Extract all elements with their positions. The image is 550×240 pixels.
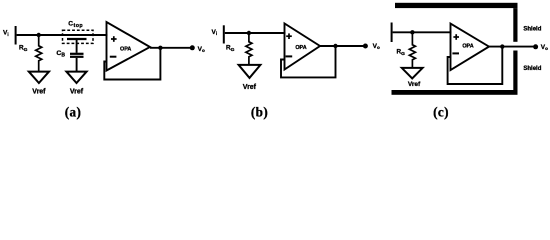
- svg-text:(b): (b): [251, 105, 268, 120]
- minus input symbol (c): [452, 52, 459, 54]
- capacitor CB (a): [70, 54, 84, 72]
- svg-text:Shield: Shield: [523, 27, 541, 33]
- shield right wall upper: [513, 8, 517, 42]
- svg-text:(a): (a): [65, 105, 82, 120]
- node junction RG (c): [410, 30, 414, 34]
- capacitor Ctop plate (a): [67, 38, 87, 40]
- wire: feedback loop (b): [281, 46, 336, 77]
- terminal Vo (a): [190, 45, 195, 50]
- plus input symbol (c): [453, 34, 459, 40]
- input terminal bar (b): [223, 25, 225, 43]
- op-amp U2 (b): [285, 24, 321, 70]
- wire: output (b): [320, 45, 365, 47]
- terminal Vo (c): [533, 44, 538, 49]
- wire: output through shield gap (c): [489, 46, 536, 48]
- svg-text:Vref: Vref: [32, 89, 46, 96]
- node junction RG (a): [37, 33, 41, 37]
- op-amp U3 (c): [451, 24, 490, 71]
- minus input symbol (a): [110, 56, 117, 58]
- svg-text:Shield: Shield: [523, 66, 541, 72]
- node junction RG (b): [247, 31, 251, 35]
- wire: input to op-amp + (b): [225, 32, 286, 34]
- resistor RG (c): [409, 32, 415, 68]
- input terminal bar (c): [391, 23, 393, 43]
- plus input symbol (a): [111, 36, 117, 42]
- wire: output (a): [150, 47, 192, 49]
- node output junction (a): [158, 46, 162, 50]
- input terminal bar (a): [15, 26, 17, 45]
- plus input symbol (b): [286, 33, 292, 39]
- resistor RG (b): [246, 33, 252, 65]
- shield bottom bar: [392, 90, 518, 95]
- wire: feedback loop (c): [448, 47, 503, 84]
- wire: input to op-amp + (c): [393, 31, 452, 33]
- Vref symbol (b): [239, 65, 261, 78]
- Vref symbol (c): [402, 68, 423, 79]
- dashed box around Ctop: [63, 30, 94, 43]
- svg-text:Vref: Vref: [70, 89, 84, 96]
- terminal Vo (b): [363, 44, 368, 49]
- Vref symbol under CB (a): [66, 72, 86, 83]
- svg-text:OPA: OPA: [295, 45, 306, 51]
- svg-text:OPA: OPA: [462, 43, 473, 49]
- node output junction (b): [333, 44, 337, 48]
- wire: input to op-amp + (a): [17, 34, 108, 36]
- minus input symbol (b): [286, 55, 293, 57]
- svg-text:(c): (c): [433, 105, 449, 120]
- shield top bar: [395, 3, 518, 8]
- shield right wall lower: [513, 51, 517, 91]
- Vref symbol under RG (a): [29, 72, 49, 83]
- wire: Ctop plate to CB (a): [76, 40, 78, 53]
- node output junction (c): [500, 44, 504, 48]
- svg-text:Vref: Vref: [408, 81, 421, 88]
- resistor RG (a): [36, 35, 42, 72]
- svg-text:Vref: Vref: [243, 84, 257, 91]
- svg-text:OPA: OPA: [120, 47, 131, 53]
- wire: feedback loop (a): [104, 48, 160, 80]
- op-amp U1 (a): [107, 22, 151, 71]
